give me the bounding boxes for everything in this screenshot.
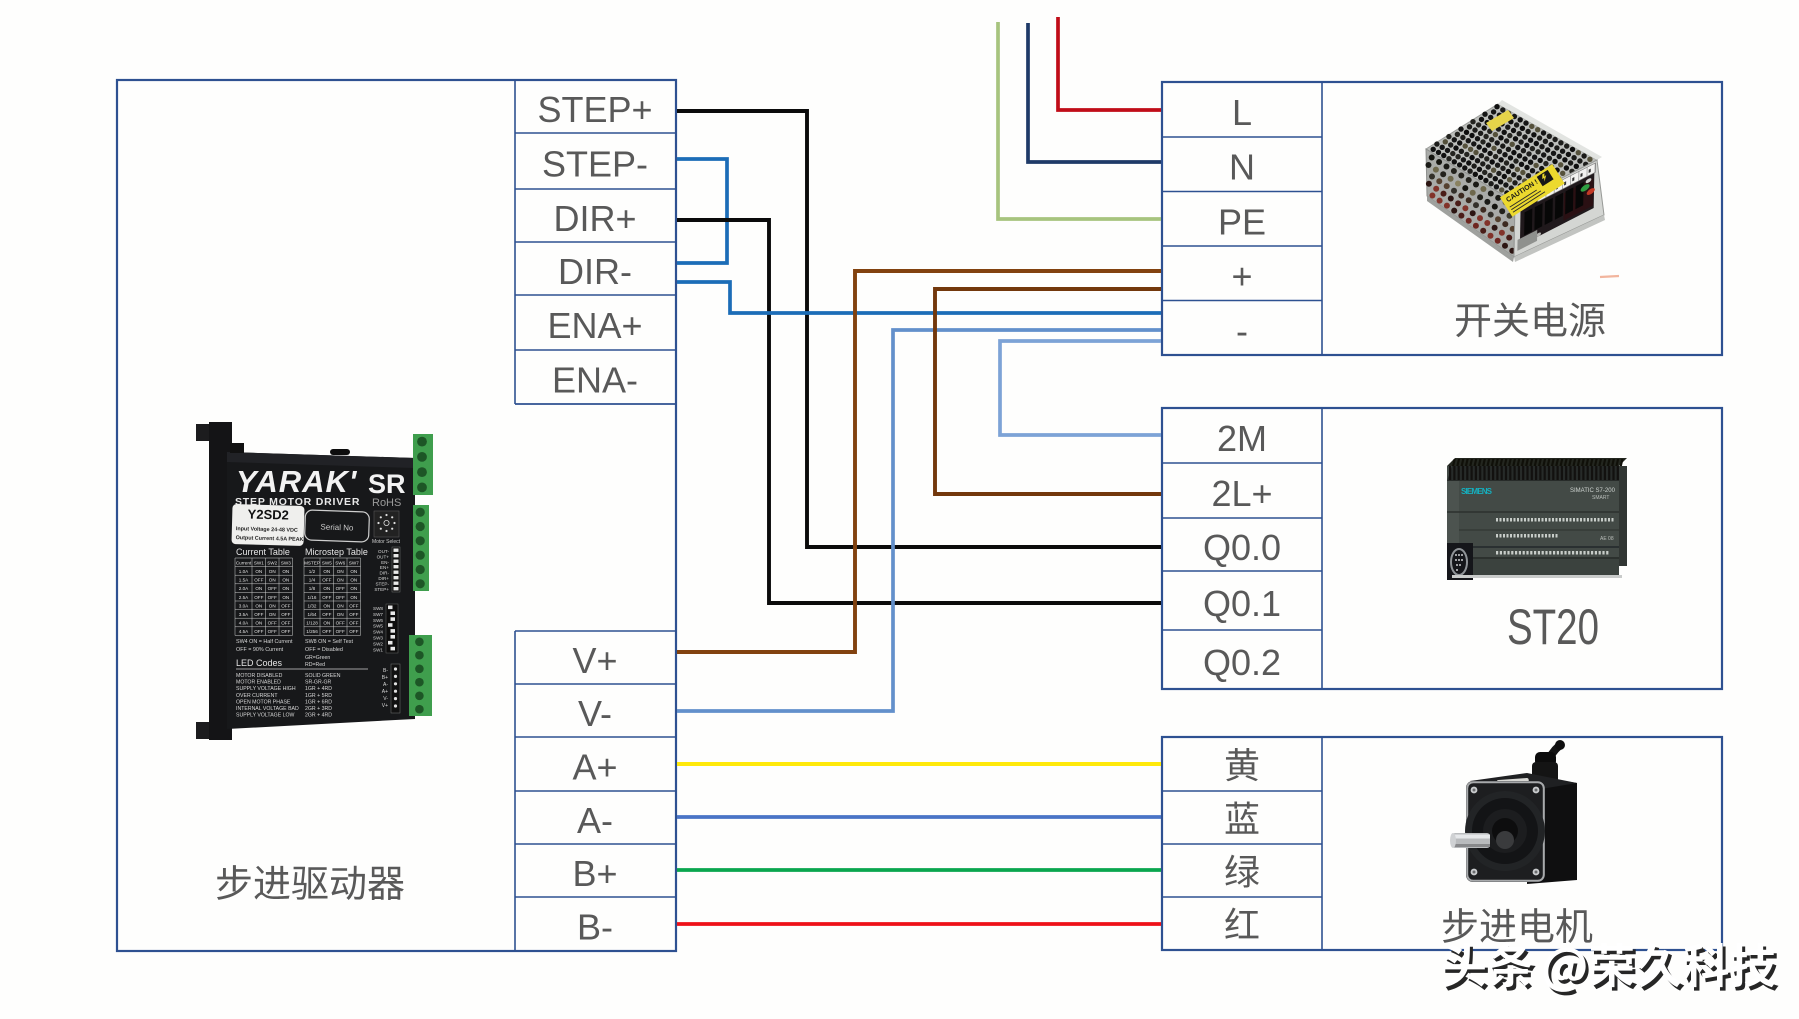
svg-text:DIR+: DIR+ bbox=[378, 576, 389, 581]
svg-text:OFF: OFF bbox=[349, 629, 358, 634]
svg-text:SUPPLY VOLTAGE LOW: SUPPLY VOLTAGE LOW bbox=[236, 713, 295, 719]
svg-text:MOTOR DISABLED: MOTOR DISABLED bbox=[236, 673, 283, 679]
svg-text:2.0A: 2.0A bbox=[239, 586, 249, 591]
svg-text:OFF: OFF bbox=[254, 629, 263, 634]
svg-text:SUPPLY VOLTAGE HIGH: SUPPLY VOLTAGE HIGH bbox=[236, 686, 296, 692]
svg-text:OFF: OFF bbox=[281, 612, 290, 617]
svg-text:SW2: SW2 bbox=[267, 561, 277, 566]
svg-text:SW2: SW2 bbox=[373, 641, 383, 646]
svg-text:Q0.2: Q0.2 bbox=[1203, 642, 1281, 683]
svg-text:ON: ON bbox=[255, 621, 262, 626]
svg-text:SIMATIC S7-200: SIMATIC S7-200 bbox=[1570, 488, 1616, 494]
svg-text:A+: A+ bbox=[382, 689, 388, 695]
svg-text:SMART: SMART bbox=[1592, 495, 1609, 501]
svg-text:ON: ON bbox=[323, 586, 330, 591]
svg-text:SW7: SW7 bbox=[349, 561, 359, 566]
svg-text:ON: ON bbox=[255, 569, 262, 574]
svg-text:RoHS: RoHS bbox=[372, 497, 401, 509]
svg-text:1.5A: 1.5A bbox=[239, 578, 249, 583]
svg-text:STEP+: STEP+ bbox=[537, 89, 652, 130]
svg-text:1/256: 1/256 bbox=[306, 629, 318, 634]
svg-text:2GR + 3RD: 2GR + 3RD bbox=[305, 706, 332, 712]
svg-text:ON: ON bbox=[255, 604, 262, 609]
svg-text:SW4: SW4 bbox=[373, 630, 383, 635]
svg-text:V+: V+ bbox=[382, 703, 388, 709]
svg-text:INTERNAL VOLTAGE BAD: INTERNAL VOLTAGE BAD bbox=[236, 706, 299, 712]
svg-text:OFF: OFF bbox=[268, 595, 277, 600]
svg-text:-: - bbox=[1236, 310, 1248, 351]
svg-text:OFF: OFF bbox=[336, 621, 345, 626]
svg-text:Q0.1: Q0.1 bbox=[1203, 583, 1281, 624]
svg-text:SW3: SW3 bbox=[373, 636, 383, 641]
svg-text:ON: ON bbox=[282, 569, 289, 574]
svg-text:OFF: OFF bbox=[336, 629, 345, 634]
svg-text:1/32: 1/32 bbox=[308, 604, 317, 609]
svg-text:OFF = Disabled: OFF = Disabled bbox=[305, 647, 343, 653]
svg-text:Q0.0: Q0.0 bbox=[1203, 527, 1281, 568]
svg-text:ST20: ST20 bbox=[1507, 599, 1599, 655]
svg-text:OFF: OFF bbox=[322, 578, 331, 583]
svg-text:4.5A: 4.5A bbox=[239, 629, 249, 634]
svg-text:A+: A+ bbox=[572, 747, 617, 788]
svg-text:2GR + 4RD: 2GR + 4RD bbox=[305, 713, 332, 719]
svg-text:Serial No: Serial No bbox=[320, 522, 354, 532]
svg-text:OFF: OFF bbox=[336, 595, 345, 600]
svg-text:STEP-: STEP- bbox=[375, 581, 389, 586]
svg-text:1GR + 6RD: 1GR + 6RD bbox=[305, 699, 332, 705]
svg-text:Microstep Table: Microstep Table bbox=[305, 547, 368, 557]
svg-text:1/2: 1/2 bbox=[309, 569, 316, 574]
svg-text:OFF: OFF bbox=[336, 586, 345, 591]
svg-text:SW3: SW3 bbox=[281, 561, 291, 566]
svg-text:ON: ON bbox=[323, 621, 330, 626]
svg-text:SW6: SW6 bbox=[373, 618, 383, 623]
svg-text:V-: V- bbox=[578, 693, 612, 734]
svg-text:EN+: EN+ bbox=[380, 565, 389, 570]
svg-text:DIR+: DIR+ bbox=[553, 198, 636, 239]
svg-text:STEP+: STEP+ bbox=[374, 587, 389, 592]
svg-text:OFF: OFF bbox=[322, 629, 331, 634]
svg-text:OFF: OFF bbox=[349, 612, 358, 617]
svg-text:ON: ON bbox=[323, 604, 330, 609]
svg-text:1/8: 1/8 bbox=[309, 586, 316, 591]
svg-text:1GR + 5RD: 1GR + 5RD bbox=[305, 693, 332, 699]
svg-text:SW8 ON = Self Test: SW8 ON = Self Test bbox=[305, 639, 353, 645]
svg-text:ON: ON bbox=[269, 578, 276, 583]
svg-text:V+: V+ bbox=[572, 640, 617, 681]
svg-text:ON: ON bbox=[282, 595, 289, 600]
svg-text:OFF: OFF bbox=[268, 621, 277, 626]
svg-text:SW8: SW8 bbox=[373, 606, 383, 611]
svg-text:B+: B+ bbox=[572, 853, 617, 894]
svg-text:SW7: SW7 bbox=[373, 612, 383, 617]
svg-text:STEP-: STEP- bbox=[542, 144, 648, 185]
svg-text:OFF: OFF bbox=[281, 629, 290, 634]
svg-text:1GR + 4RD: 1GR + 4RD bbox=[305, 686, 332, 692]
svg-text:L: L bbox=[1232, 92, 1252, 133]
svg-text:RD=Red: RD=Red bbox=[305, 662, 325, 668]
svg-text:3.0A: 3.0A bbox=[239, 604, 249, 609]
svg-text:1/16: 1/16 bbox=[308, 595, 317, 600]
svg-text:ENA+: ENA+ bbox=[547, 305, 642, 346]
svg-text:3.5A: 3.5A bbox=[239, 612, 249, 617]
svg-text:2M: 2M bbox=[1217, 418, 1267, 459]
svg-text:SR-GR-GR: SR-GR-GR bbox=[305, 680, 331, 686]
svg-text:OFF: OFF bbox=[254, 578, 263, 583]
svg-text:PE: PE bbox=[1218, 201, 1266, 242]
svg-text:OFF: OFF bbox=[322, 595, 331, 600]
svg-text:EN-: EN- bbox=[381, 560, 389, 565]
svg-text:Y2SD2: Y2SD2 bbox=[247, 506, 289, 522]
svg-text:ON: ON bbox=[337, 569, 344, 574]
svg-text:SW6: SW6 bbox=[335, 561, 345, 566]
svg-text:SIEMENS: SIEMENS bbox=[1461, 487, 1493, 496]
svg-text:1/128: 1/128 bbox=[306, 621, 318, 626]
svg-text:DIR-: DIR- bbox=[380, 571, 390, 576]
svg-text:OFF: OFF bbox=[281, 621, 290, 626]
svg-text:AE 08: AE 08 bbox=[1600, 536, 1614, 542]
svg-text:SW5: SW5 bbox=[322, 561, 332, 566]
svg-text:OUT-: OUT- bbox=[378, 549, 389, 554]
svg-text:SW1: SW1 bbox=[254, 561, 264, 566]
svg-text:1/64: 1/64 bbox=[308, 612, 317, 617]
svg-text:B+: B+ bbox=[382, 675, 388, 681]
svg-text:SW1: SW1 bbox=[373, 647, 383, 652]
svg-text:OFF: OFF bbox=[268, 586, 277, 591]
svg-text:ON: ON bbox=[323, 569, 330, 574]
svg-text:YARAK': YARAK' bbox=[236, 464, 358, 499]
svg-text:OFF: OFF bbox=[349, 621, 358, 626]
svg-text:ON: ON bbox=[269, 604, 276, 609]
svg-text:OFF: OFF bbox=[268, 629, 277, 634]
svg-text:SR: SR bbox=[368, 469, 406, 499]
svg-text:ENA-: ENA- bbox=[552, 360, 638, 401]
svg-text:OFF: OFF bbox=[254, 612, 263, 617]
svg-text:DIR-: DIR- bbox=[558, 251, 632, 292]
svg-text:OFF: OFF bbox=[322, 612, 331, 617]
svg-text:N: N bbox=[1229, 147, 1255, 188]
svg-text:OFF: OFF bbox=[254, 595, 263, 600]
svg-text:OVER CURRENT: OVER CURRENT bbox=[236, 693, 278, 699]
svg-text:OFF = 90% Current: OFF = 90% Current bbox=[236, 647, 284, 653]
svg-text:A-: A- bbox=[383, 682, 388, 688]
svg-text:4.0A: 4.0A bbox=[239, 621, 249, 626]
svg-text:ON: ON bbox=[269, 612, 276, 617]
svg-text:SW4 ON = Half Current: SW4 ON = Half Current bbox=[236, 639, 293, 645]
svg-text:MSTEP: MSTEP bbox=[304, 561, 320, 566]
svg-text:ON: ON bbox=[337, 604, 344, 609]
svg-text:ON: ON bbox=[350, 595, 357, 600]
svg-text:ON: ON bbox=[337, 612, 344, 617]
svg-text:V-: V- bbox=[383, 696, 388, 702]
svg-text:ON: ON bbox=[282, 586, 289, 591]
svg-text:ON: ON bbox=[269, 569, 276, 574]
svg-text:LED Codes: LED Codes bbox=[236, 658, 283, 668]
svg-text:ON: ON bbox=[350, 569, 357, 574]
svg-text:OPEN MOTOR PHASE: OPEN MOTOR PHASE bbox=[236, 699, 291, 705]
svg-text:Current Table: Current Table bbox=[236, 547, 290, 557]
svg-text:1/4: 1/4 bbox=[309, 578, 316, 583]
svg-text:ON: ON bbox=[350, 578, 357, 583]
svg-text:SOLID GREEN: SOLID GREEN bbox=[305, 673, 341, 679]
svg-text:2.5A: 2.5A bbox=[239, 595, 249, 600]
svg-text:B-: B- bbox=[577, 907, 613, 948]
svg-text:+: + bbox=[1231, 256, 1252, 297]
svg-text:ON: ON bbox=[350, 586, 357, 591]
svg-text:OUT+: OUT+ bbox=[377, 554, 390, 559]
svg-text:2L+: 2L+ bbox=[1211, 473, 1272, 514]
svg-text:OFF: OFF bbox=[349, 604, 358, 609]
svg-text:ON: ON bbox=[282, 578, 289, 583]
svg-text:ON: ON bbox=[255, 586, 262, 591]
svg-text:SW5: SW5 bbox=[373, 624, 383, 629]
svg-text:ON: ON bbox=[337, 578, 344, 583]
svg-text:MOTOR ENABLED: MOTOR ENABLED bbox=[236, 680, 281, 686]
svg-text:Current: Current bbox=[236, 561, 252, 566]
svg-text:Motor Select: Motor Select bbox=[372, 539, 401, 545]
svg-text:GR=Green: GR=Green bbox=[305, 655, 330, 661]
svg-text:1.0A: 1.0A bbox=[239, 569, 249, 574]
svg-text:OFF: OFF bbox=[281, 604, 290, 609]
svg-text:B-: B- bbox=[383, 668, 388, 674]
svg-text:A-: A- bbox=[577, 800, 613, 841]
